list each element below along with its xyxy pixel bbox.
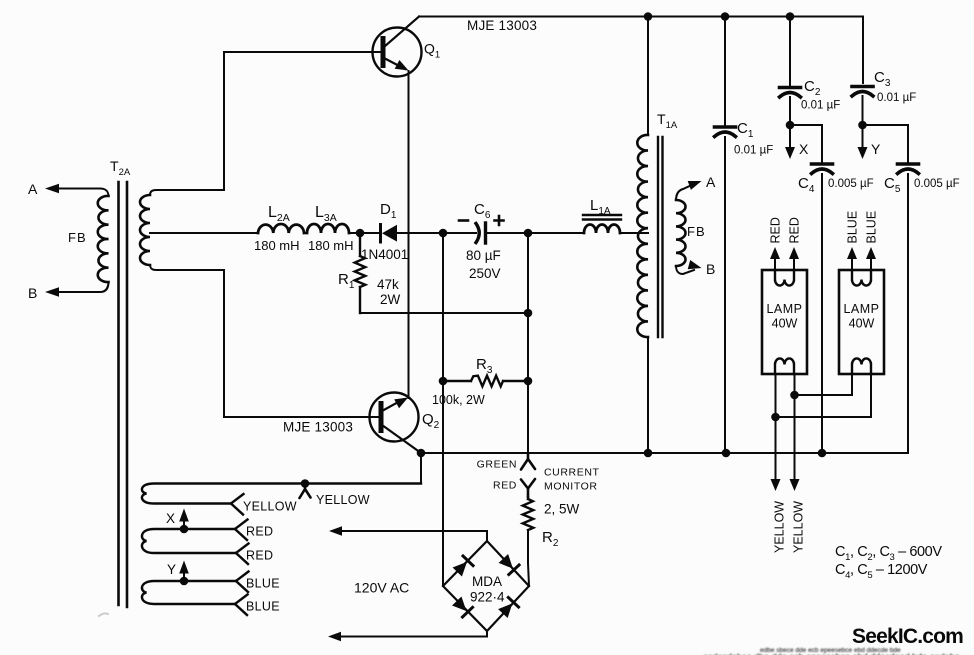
svg-text:2W: 2W <box>380 292 401 307</box>
wire lamp1 left pin down <box>775 374 777 480</box>
connector GREEN (male) <box>521 453 535 470</box>
wire L1A to T1A <box>620 232 648 234</box>
svg-text:120V AC: 120V AC <box>354 580 409 596</box>
wire C1 top <box>724 17 726 128</box>
diode D1 triangle <box>382 225 397 242</box>
svg-text:D1: D1 <box>380 201 397 221</box>
svg-text:100k, 2W: 100k, 2W <box>432 393 485 407</box>
connector chevron BLUE bottom <box>235 595 248 616</box>
wire FB bottom lead to B <box>56 282 109 292</box>
wire C3-node to C5 <box>863 125 909 164</box>
wire C2-node to C4 <box>790 125 822 164</box>
wire vertical x224 upper (Q1 base to T2A winding top) <box>223 52 225 190</box>
svg-text:40W: 40W <box>849 317 875 331</box>
watermark ghost bottom row <box>703 647 960 655</box>
transistor Q1 base bar <box>381 39 386 66</box>
svg-text:BLUE: BLUE <box>246 600 280 614</box>
svg-text:Y: Y <box>167 562 176 577</box>
lamp 1 bottom filament <box>775 358 794 374</box>
node junction dot rail/C4 <box>818 449 827 458</box>
Q2 arrowhead (up-right) <box>394 398 408 409</box>
arrowhead B (T1A) <box>688 260 702 269</box>
svg-text:Q1: Q1 <box>424 41 440 61</box>
svg-text:180 mH: 180 mH <box>254 238 300 253</box>
wire R2 to bridge right corner <box>528 530 529 586</box>
svg-text:X: X <box>166 511 175 526</box>
connector chevron YELLOW <box>231 494 244 515</box>
svg-text:RED: RED <box>246 525 273 539</box>
lamp 2 box <box>839 270 884 374</box>
T2A yellow winding <box>142 484 421 504</box>
svg-text:FB: FB <box>68 230 87 245</box>
wire T1A FB top lead <box>676 184 694 200</box>
wire Q2 upper diagonal <box>382 400 402 411</box>
node junction dot top rail / C1 <box>721 12 730 21</box>
wire jumper lamp1-left to lamp2-right <box>776 374 872 417</box>
node junction dot R1-bottom/x528 <box>524 309 533 318</box>
wire C2 top <box>789 17 791 88</box>
T2A red winding <box>142 529 236 553</box>
wire C1 bottom <box>724 137 726 453</box>
node junction dot Y tap <box>180 577 189 586</box>
svg-text:CURRENT: CURRENT <box>544 467 600 479</box>
svg-text:MONITOR: MONITOR <box>544 481 598 493</box>
capacitor C1 <box>715 125 736 129</box>
svg-text:MDA: MDA <box>472 574 502 589</box>
connector RED (female) <box>521 479 535 497</box>
lamp 2 top filament <box>852 270 871 286</box>
svg-text:L3A: L3A <box>315 204 337 224</box>
inductor L2A <box>258 224 304 233</box>
wire Q1 base <box>224 51 381 53</box>
node junction dot below C3 <box>858 121 867 130</box>
svg-text:BLUE: BLUE <box>246 577 280 591</box>
svg-text:C6: C6 <box>474 201 491 221</box>
inductor L1A core bars <box>583 214 621 216</box>
svg-text:MJE 13003: MJE 13003 <box>467 18 537 33</box>
node junction dot lamp1-right jumper <box>790 391 799 400</box>
svg-text:YELLOW: YELLOW <box>792 501 806 553</box>
svg-text:LAMP: LAMP <box>843 302 879 316</box>
node junction dot main/bridge-left line <box>439 229 448 238</box>
wire bridge bottom corner to AC line <box>341 631 487 637</box>
wire D1 to C6 <box>397 232 476 234</box>
svg-text:RED: RED <box>246 549 273 563</box>
svg-text:0.005 µF: 0.005 µF <box>914 178 960 190</box>
lamp 2 pin arrows up <box>852 260 871 270</box>
svg-text:YELLOW: YELLOW <box>773 501 787 553</box>
svg-text:B: B <box>28 285 37 301</box>
svg-text:250V: 250V <box>469 266 501 281</box>
arrow X tap stem <box>183 518 185 529</box>
node junction dot R3 right <box>524 377 533 386</box>
arrow Y stem <box>862 125 864 148</box>
capacitor C6 straight plate <box>484 223 487 243</box>
svg-text:1N4001: 1N4001 <box>361 247 408 262</box>
svg-text:C4, C5 – 1200V: C4, C5 – 1200V <box>835 562 928 581</box>
svg-text:YELLOW: YELLOW <box>316 493 370 507</box>
svg-text:0.01 µF: 0.01 µF <box>734 145 773 157</box>
connector chevron BLUE top <box>236 572 249 593</box>
svg-text:47k: 47k <box>377 277 399 292</box>
node junction dot rail/T1A <box>644 449 653 458</box>
node junction dot main/R1 <box>356 229 365 238</box>
svg-text:L2A: L2A <box>268 204 290 224</box>
wire top-right corner down to C3 <box>862 17 864 84</box>
label plus (C6) <box>495 216 504 225</box>
wire C2 bottom <box>789 97 791 125</box>
wire lamp1 right pin down <box>794 374 796 480</box>
wire T2A winding top lead <box>150 190 224 195</box>
wire top rail <box>419 16 863 18</box>
svg-text:R3: R3 <box>476 356 493 376</box>
svg-text:X: X <box>799 141 809 157</box>
connector YELLOW (male) <box>300 484 311 499</box>
wire L3A to D1 <box>349 232 380 234</box>
node junction dot top rail / T1A <box>644 12 653 21</box>
diode D1 cathode bar <box>379 225 382 243</box>
svg-text:C2: C2 <box>804 78 821 98</box>
transformer T1A FB winding <box>676 200 686 266</box>
svg-text:2, 5W: 2, 5W <box>544 502 580 517</box>
node junction dot X tap <box>180 525 189 534</box>
svg-text:FB: FB <box>687 224 706 239</box>
arrowhead B (left) <box>45 287 59 297</box>
bridge diode bottom-right <box>498 597 519 618</box>
node junction dot C6-right/x528 <box>524 229 533 238</box>
Q1 emitter arrowhead <box>395 60 409 71</box>
arrowhead X tap (up) <box>179 509 189 522</box>
wire vertical x224 lower (T2A winding bottom to Q2 base) <box>150 265 379 417</box>
svg-text:180 mH: 180 mH <box>308 238 354 253</box>
transformer T1A core <box>657 137 659 337</box>
label minus (C6) <box>459 219 468 222</box>
capacitor C2 <box>780 86 801 90</box>
wire vertical x443 (C6-left node to bridge) <box>442 233 444 586</box>
wire T2A tap to L2A <box>150 232 258 234</box>
capacitor C3 <box>852 85 873 89</box>
svg-text:BLUE: BLUE <box>865 211 879 244</box>
svg-text:0.01 µF: 0.01 µF <box>801 100 840 112</box>
node junction dot lamp1-left jumper <box>771 413 780 422</box>
resistor R1 <box>355 233 366 313</box>
node junction dot yellow connector <box>301 479 310 488</box>
arrowhead A (T1A) <box>688 181 702 190</box>
wire C3 bottom <box>862 96 864 125</box>
transformer T1A primary winding <box>637 135 648 337</box>
bridge MDA922-4 diamond <box>443 541 529 631</box>
wire R1 bottom to x528 <box>360 312 528 314</box>
inductor L1A <box>584 225 620 234</box>
svg-text:922·4: 922·4 <box>470 590 505 605</box>
bridge diode bottom-left <box>452 596 473 617</box>
node junction dot rail/C1 <box>722 449 731 458</box>
wire C6 right to L1A <box>486 232 584 234</box>
wire bridge top corner to AC line <box>341 531 487 541</box>
svg-text:RED: RED <box>788 217 802 243</box>
svg-text:R1: R1 <box>338 271 355 291</box>
wire Q1 emitter to Q2 (vertical) <box>408 71 410 398</box>
svg-text:RED: RED <box>769 217 783 243</box>
wire Q1 emitter diagonal <box>384 58 405 69</box>
arrow Y tap stem <box>183 570 185 581</box>
svg-text:BLUE: BLUE <box>846 211 860 244</box>
arrowhead A (left) <box>45 184 59 193</box>
svg-text:0.01 µF: 0.01 µF <box>877 92 916 104</box>
connector chevron RED bottom <box>236 544 249 565</box>
svg-text:Q2: Q2 <box>422 411 440 431</box>
resistor R3 <box>443 376 528 387</box>
svg-text:A: A <box>28 181 38 197</box>
arrowhead YELLOW left (down) <box>771 479 781 491</box>
inductor L3A <box>307 224 349 233</box>
scan artifact mark (bottom-left) <box>99 613 108 616</box>
arrowhead 120VAC upper (left) <box>329 526 342 536</box>
transformer T2A FB winding <box>98 196 109 282</box>
bridge diode top-right <box>498 554 519 575</box>
capacitor C6 curved plate <box>476 224 479 243</box>
capacitor C4 <box>812 162 833 166</box>
lamp 1 pin arrows up <box>775 260 794 270</box>
wire T1A FB bottom lead <box>676 266 694 274</box>
svg-text:R2: R2 <box>542 529 559 549</box>
node junction dot top rail / C2 <box>786 12 795 21</box>
arrow X stem <box>789 125 791 148</box>
wire Q2-emitter node to yellow lead <box>420 453 422 484</box>
svg-text:80 µF: 80 µF <box>466 248 501 263</box>
svg-text:MJE 13003: MJE 13003 <box>283 420 353 435</box>
wire vertical x528 (C6-right node down) <box>527 233 529 453</box>
lamp 2 bottom filament <box>852 358 871 374</box>
wire T1A bottom lead <box>647 337 649 453</box>
svg-text:C5: C5 <box>884 175 901 195</box>
arrowhead 120VAC lower (left) <box>328 632 341 641</box>
resistor R2 <box>523 497 534 530</box>
wire Q2 lower diagonal to rail <box>382 425 421 453</box>
transistor Q2 circle <box>370 393 419 442</box>
wire jumper lamp1-right to lamp2-left <box>795 374 853 395</box>
svg-text:SeekIC.com: SeekIC.com <box>852 625 963 648</box>
svg-text:0.005 µF: 0.005 µF <box>828 178 874 190</box>
svg-text:B: B <box>706 261 715 277</box>
svg-text:YELLOW: YELLOW <box>243 500 297 514</box>
wire Q1 collector diagonal to top rail <box>384 17 419 48</box>
capacitor C5 <box>898 162 919 166</box>
wire bottom rail <box>421 452 908 454</box>
T2A blue winding <box>142 581 236 604</box>
svg-text:A: A <box>706 174 716 190</box>
arrowhead YELLOW right (down) <box>790 479 800 491</box>
transistor Q2 base bar <box>379 404 384 431</box>
arrowhead Y tap (up) <box>179 561 189 574</box>
svg-text:C3: C3 <box>874 69 891 89</box>
transformer T2A core <box>117 182 120 605</box>
wire C4 bottom <box>821 174 823 453</box>
svg-text:LAMP: LAMP <box>766 302 802 316</box>
bridge diode top-left <box>452 556 473 577</box>
wire C5 bottom <box>907 174 909 453</box>
arrowhead X (down) <box>785 147 795 159</box>
svg-text:C4: C4 <box>798 175 815 195</box>
svg-text:T1A: T1A <box>657 111 678 131</box>
node junction dot below C2 <box>786 121 795 130</box>
node junction dot R3 left <box>439 377 448 386</box>
svg-text:C1, C2, C3 – 600V: C1, C2, C3 – 600V <box>835 544 942 563</box>
arrowhead Y (down) <box>858 147 868 159</box>
transistor Q1 circle <box>373 28 422 77</box>
wire FB top lead to A <box>56 189 109 197</box>
svg-text:40W: 40W <box>772 317 798 331</box>
lamp 1 top filament <box>775 270 794 286</box>
connector chevron RED top <box>235 520 248 541</box>
lamp 1 box <box>762 270 807 374</box>
node junction dot rail/Q2 emitter <box>417 449 426 458</box>
wire between L2A and L3A <box>304 232 307 234</box>
svg-text:T2A: T2A <box>110 158 131 178</box>
svg-text:C1: C1 <box>737 120 754 140</box>
svg-text:GREEN: GREEN <box>477 459 517 471</box>
svg-text:Y: Y <box>871 141 881 157</box>
wire T1A top lead <box>647 17 649 136</box>
svg-text:RED: RED <box>493 480 517 492</box>
transformer T2A base-drive winding <box>140 195 150 265</box>
